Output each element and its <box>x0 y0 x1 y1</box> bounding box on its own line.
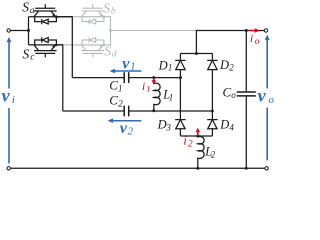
Sb diode loop <box>82 17 104 22</box>
svg-text:2: 2 <box>118 99 123 109</box>
svg-text:D: D <box>157 117 167 131</box>
svg-text:i: i <box>12 94 15 106</box>
svg-text:D: D <box>219 58 229 72</box>
svg-text:i: i <box>142 81 145 93</box>
svg-text:b: b <box>111 6 116 16</box>
voltage arrow vo <box>265 35 270 161</box>
Sb emitter node dot <box>103 15 106 18</box>
wire bottom rail <box>10 167 265 169</box>
wire C2 left <box>63 110 124 112</box>
node C2 column junction dot <box>211 110 214 113</box>
wire Sc emitter to Sd collector <box>63 44 104 46</box>
Sa IGBT body bar <box>34 10 57 12</box>
Sb collector-emitter baseline <box>73 16 104 18</box>
svg-text:1: 1 <box>146 84 150 94</box>
Sb antiparallel diode <box>88 19 90 24</box>
diode D2 <box>207 54 217 120</box>
svg-text:o: o <box>268 94 274 106</box>
Sb gate tick <box>92 4 94 8</box>
svg-text:a: a <box>30 6 35 16</box>
voltage arrow v1 <box>110 69 142 74</box>
node top bus dot <box>195 52 198 55</box>
current arrow io <box>250 28 260 32</box>
input terminal bottom <box>7 167 10 170</box>
svg-text:C: C <box>109 77 118 92</box>
Sb emitter arrowhead <box>100 13 103 16</box>
Sd emitter node dot <box>103 44 106 47</box>
inductor L1 <box>154 78 160 111</box>
wire Sa emitter down to C1 <box>56 17 72 78</box>
Sc IGBT body bar <box>34 50 57 52</box>
wire output rail top <box>196 30 264 32</box>
node L1 top dot <box>152 76 155 79</box>
Sd diode loop <box>82 40 104 45</box>
current arrow i2 <box>196 128 200 136</box>
Sc emitter node dot <box>55 44 58 47</box>
svg-text:S: S <box>22 0 29 15</box>
svg-text:v: v <box>120 120 128 137</box>
svg-text:1: 1 <box>130 61 135 72</box>
Sa collector diagonal <box>34 11 38 16</box>
input terminal top <box>7 29 10 32</box>
Sb collector diagonal <box>82 11 86 16</box>
wire C1 left <box>72 77 124 79</box>
Sb IGBT gate bar <box>83 7 103 9</box>
wire C1 right to D-leg <box>129 77 181 79</box>
Sc collector diagonal <box>34 45 38 50</box>
current arrow i1 <box>152 78 156 85</box>
wire Sb emitter to midpoint <box>104 17 111 31</box>
capacitor C2 <box>123 106 125 117</box>
node L2 top dot <box>196 135 199 138</box>
Sd emitter arrowhead <box>100 45 103 48</box>
Sa antiparallel diode <box>41 19 43 24</box>
output terminal top <box>264 29 267 32</box>
Sa IGBT gate bar <box>35 7 55 9</box>
Sa collector-emitter baseline <box>29 16 73 18</box>
Sa emitter node dot <box>55 15 58 18</box>
Sd collector diagonal <box>82 45 86 50</box>
svg-text:3: 3 <box>165 122 171 132</box>
switch Sa <box>29 4 73 24</box>
svg-text:d: d <box>112 50 117 60</box>
Sd IGBT gate bar <box>83 52 103 54</box>
svg-text:v: v <box>258 85 267 105</box>
Sa gate tick <box>44 4 46 8</box>
wire Sc emitter down to C2 <box>56 45 62 111</box>
svg-text:o: o <box>231 90 236 100</box>
node Sb/Sd midpoint dot <box>109 29 112 32</box>
node Co bottom dot <box>245 167 248 170</box>
svg-text:1: 1 <box>169 92 174 102</box>
diode D1 <box>175 54 185 120</box>
Sc diode loop <box>35 40 57 45</box>
Sc IGBT gate bar <box>35 52 55 54</box>
Sc emitter diagonal <box>51 45 55 50</box>
svg-text:v: v <box>122 55 130 72</box>
diode D4 <box>207 120 217 136</box>
wire input to leg <box>10 30 28 32</box>
wire collector riser <box>28 17 30 45</box>
Sc emitter arrowhead <box>52 45 55 48</box>
svg-text:S: S <box>23 47 30 62</box>
Sb IGBT body bar <box>82 10 105 12</box>
node input junction <box>27 29 30 32</box>
wire top bus riser <box>195 31 197 54</box>
svg-text:2: 2 <box>188 139 193 149</box>
node Co top dot <box>245 29 248 32</box>
Sd antiparallel diode <box>88 37 90 42</box>
svg-text:1: 1 <box>118 84 123 94</box>
Sb emitter diagonal <box>98 11 102 16</box>
Sd emitter diagonal <box>98 45 102 50</box>
Sc antiparallel diode <box>41 37 43 42</box>
wire bridge bottom bar <box>180 135 212 137</box>
svg-text:4: 4 <box>229 122 234 132</box>
switch Sd <box>63 31 110 58</box>
Sa diode loop <box>35 17 57 22</box>
node C1/D1 dot <box>179 76 182 79</box>
svg-text:2: 2 <box>229 62 234 72</box>
svg-text:i: i <box>183 134 187 148</box>
svg-text:S: S <box>104 43 111 58</box>
svg-text:1: 1 <box>168 63 173 73</box>
voltage arrow v2 <box>108 118 142 123</box>
Sa emitter arrowhead <box>52 13 55 16</box>
wire C2 right to D2/D4 column <box>129 110 213 112</box>
Sd IGBT body bar <box>82 50 105 52</box>
Sc gate tick <box>44 53 46 57</box>
svg-text:D: D <box>158 58 168 72</box>
svg-text:o: o <box>255 36 260 46</box>
Sa emitter diagonal <box>51 11 55 16</box>
svg-text:C: C <box>223 84 232 99</box>
svg-text:S: S <box>103 0 110 15</box>
wire top bus <box>180 53 212 55</box>
Sc collector-emitter baseline <box>29 44 63 46</box>
diode D3 <box>175 120 185 136</box>
wire Sd emitter riser <box>104 31 111 45</box>
svg-text:2: 2 <box>128 127 134 138</box>
svg-text:2: 2 <box>211 149 216 159</box>
switch Sc <box>29 37 63 57</box>
node L2 bottom dot <box>196 167 199 170</box>
Sd gate tick <box>92 53 94 57</box>
svg-text:D: D <box>219 118 229 132</box>
svg-text:C: C <box>109 93 118 108</box>
capacitor Co <box>237 31 256 169</box>
node L1 bottom dot <box>152 109 155 112</box>
svg-text:v: v <box>2 86 11 106</box>
switch Sb <box>73 4 111 30</box>
voltage arrow vi <box>7 37 12 163</box>
capacitor C1 <box>123 72 125 83</box>
svg-text:i: i <box>250 31 253 45</box>
output terminal bottom <box>265 167 268 170</box>
wire midpoint to output rail (gray) <box>111 30 196 32</box>
inductor L2 <box>198 136 204 168</box>
